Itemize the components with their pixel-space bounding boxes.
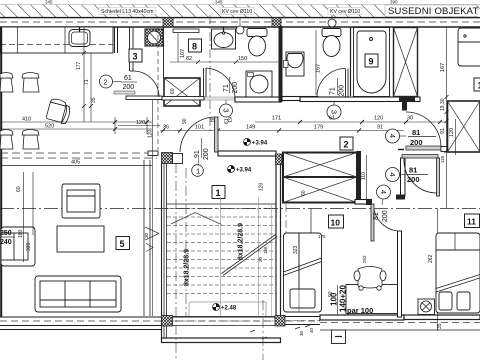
svg-text:335: 335 xyxy=(26,242,32,251)
room11 inner wall lines xyxy=(310,209,312,234)
svg-text:1: 1 xyxy=(196,167,200,176)
svg-text:2: 2 xyxy=(104,80,108,87)
KV pipe symbol 1 xyxy=(236,17,244,34)
stair landing outline xyxy=(189,302,266,316)
svg-text:90: 90 xyxy=(182,118,188,124)
bed room11 xyxy=(436,233,480,313)
kitchen sink xyxy=(69,27,90,47)
svg-text:410: 410 xyxy=(22,117,31,123)
room label 9 xyxy=(365,54,378,67)
kitchen vertical dim 177/71/35 xyxy=(82,27,93,122)
bath9 bottom wall xyxy=(300,97,420,102)
svg-text:+2.48: +2.48 xyxy=(221,306,237,312)
svg-text:+3.94: +3.94 xyxy=(236,168,252,174)
250/240 label xyxy=(0,230,14,246)
box with minus symbol xyxy=(332,330,346,344)
door 2 label xyxy=(100,75,138,91)
svg-text:110: 110 xyxy=(361,172,367,180)
vertical dim line right 167/19,30 xyxy=(438,27,449,331)
door sill room3 xyxy=(114,91,135,94)
wall pier hatched top 2 xyxy=(272,18,281,28)
svg-text:149: 149 xyxy=(246,125,255,131)
dim 167 vertical bath2 xyxy=(315,30,317,95)
door 4 room10 xyxy=(371,185,400,241)
svg-text:345: 345 xyxy=(215,0,223,5)
svg-text:91: 91 xyxy=(194,150,201,158)
shaft centerline vertical xyxy=(209,15,211,131)
svg-text:101: 101 xyxy=(195,125,204,131)
svg-text:30: 30 xyxy=(299,330,304,336)
dim line bathroom8 82/150 xyxy=(170,60,281,64)
svg-text:KV cev Ø110: KV cev Ø110 xyxy=(330,9,360,15)
svg-text:81: 81 xyxy=(412,128,420,137)
WC bottom wall xyxy=(126,96,162,100)
svg-text:KV cev Ø110: KV cev Ø110 xyxy=(222,9,252,15)
svg-text:4: 4 xyxy=(379,190,388,194)
vertical centerlines below stair xyxy=(175,163,177,360)
svg-text:par 100: par 100 xyxy=(347,306,373,315)
svg-text:120: 120 xyxy=(136,120,145,126)
room label 3 xyxy=(129,49,142,62)
room10 bottom wall xyxy=(285,317,320,325)
room label 8 xyxy=(189,39,202,52)
sofa bottom xyxy=(35,276,121,312)
door label 71/200 vertical xyxy=(223,77,239,94)
circle 3 tag bath8 door xyxy=(220,100,233,123)
chimney block xyxy=(145,29,163,46)
living glass wall lines xyxy=(144,99,153,316)
svg-text:90: 90 xyxy=(328,291,334,297)
+2.48 marker stair xyxy=(213,304,237,312)
svg-text:3: 3 xyxy=(133,52,138,62)
circle 1 tag entry xyxy=(192,158,204,176)
svg-text:35: 35 xyxy=(91,97,97,103)
terrace edge bottom left xyxy=(0,317,320,330)
svg-text:1: 1 xyxy=(216,188,221,198)
svg-text:3: 3 xyxy=(330,110,339,114)
wall between bath2 and bath9 xyxy=(350,27,352,96)
svg-text:167: 167 xyxy=(440,63,446,72)
svg-text:61: 61 xyxy=(124,75,132,82)
svg-text:9: 9 xyxy=(369,57,374,67)
toilet bathroom8 xyxy=(247,29,267,57)
svg-text:8x18.2/28.9: 8x18.2/28.9 xyxy=(238,223,245,260)
svg-text:81: 81 xyxy=(373,212,380,220)
svg-text:200: 200 xyxy=(203,148,210,160)
room label 12 (cut) xyxy=(474,78,480,91)
bathtub room9 xyxy=(354,28,390,97)
bar stool 1 xyxy=(0,73,13,93)
stair break peak xyxy=(171,213,222,225)
wall pier below bath9 xyxy=(399,96,415,102)
stair left wall xyxy=(162,163,167,340)
svg-text:71: 71 xyxy=(223,84,230,92)
washing machine bathroom8 xyxy=(246,71,272,97)
svg-text:10: 10 xyxy=(331,218,341,228)
svg-text:8: 8 xyxy=(192,42,197,52)
room label 10 xyxy=(329,215,344,228)
pier hatched at wardrobe left xyxy=(276,154,283,165)
dining chair rotated xyxy=(46,98,73,125)
washbasin bathroom8 xyxy=(212,27,236,49)
left vertical dim 60/180/335 xyxy=(24,172,34,262)
dashed zone boundary lines left xyxy=(0,153,157,166)
svg-text:390: 390 xyxy=(390,0,398,5)
bar stool 4 xyxy=(22,130,39,150)
room label 1 xyxy=(212,186,225,199)
bath2 bottom wall xyxy=(282,97,318,101)
stair line of travel xyxy=(185,168,187,316)
svg-text:200: 200 xyxy=(232,82,239,94)
svg-text:SUSEDNI OBJEKAT: SUSEDNI OBJEKAT xyxy=(388,6,478,17)
WC left wall xyxy=(130,27,134,97)
svg-text:30: 30 xyxy=(407,116,413,122)
stair handrail diagonal xyxy=(222,235,278,276)
svg-text:175: 175 xyxy=(318,234,326,239)
wall vertical between bath8 and bath2 xyxy=(279,26,283,102)
door sill bath8 xyxy=(205,97,235,100)
wardrobe X room12 xyxy=(448,101,480,152)
svg-text:107: 107 xyxy=(180,49,186,58)
svg-text:61: 61 xyxy=(329,116,335,122)
svg-text:71: 71 xyxy=(330,87,337,95)
svg-text:3: 3 xyxy=(222,108,231,112)
washbasin bath2 xyxy=(284,52,305,76)
svg-text:520: 520 xyxy=(45,124,54,130)
svg-text:81: 81 xyxy=(409,166,417,175)
svg-text:5: 5 xyxy=(120,239,125,249)
wall pier hatched top 1 xyxy=(163,18,173,28)
svg-text:166: 166 xyxy=(263,246,268,254)
pier hollow at stair top xyxy=(173,154,183,164)
centerline horizontal main xyxy=(0,208,480,210)
svg-text:262: 262 xyxy=(428,254,434,263)
stair vertical guide lines xyxy=(220,197,222,316)
kitchen counter xyxy=(0,27,118,53)
room label 2 xyxy=(340,137,353,150)
top exterior wall xyxy=(0,18,480,27)
svg-text:71: 71 xyxy=(84,79,90,85)
shaft X-box xyxy=(164,78,200,106)
bed11 inner line xyxy=(454,233,456,250)
svg-text:35: 35 xyxy=(437,323,443,329)
door sill bath2 xyxy=(318,97,346,100)
+3.94 marker room1 xyxy=(228,166,252,174)
centerline above bed10 xyxy=(285,204,287,233)
bed room10 xyxy=(284,233,322,312)
door 2 arc (61/200) xyxy=(130,71,159,97)
room label 11 xyxy=(465,214,480,228)
corridor dim line lower xyxy=(160,129,404,133)
window chevron left xyxy=(145,227,159,252)
bar stool 2 xyxy=(22,73,39,93)
door 4 room11 xyxy=(386,155,440,197)
svg-text:200: 200 xyxy=(123,84,135,91)
room10 top wall xyxy=(355,200,372,205)
svg-text:180: 180 xyxy=(18,229,24,238)
svg-text:60: 60 xyxy=(16,186,22,192)
wall corridor bottom right of entry door xyxy=(218,151,276,156)
svg-text:323: 323 xyxy=(293,245,299,254)
svg-text:4: 4 xyxy=(388,172,397,176)
svg-text:110: 110 xyxy=(440,155,445,163)
bath2 door (71/200) xyxy=(317,69,348,98)
pier hatched at stair top xyxy=(162,153,173,164)
svg-text:30: 30 xyxy=(144,232,149,238)
washing machine symbol room11 xyxy=(418,299,435,315)
stair treads dashed xyxy=(167,209,276,294)
circle 3 door tag xyxy=(327,97,341,119)
bed dim 323 xyxy=(298,233,300,312)
svg-text:82: 82 xyxy=(186,56,192,62)
svg-text:179: 179 xyxy=(314,125,323,131)
loveseat left xyxy=(1,227,35,266)
desk room10 xyxy=(346,285,399,314)
bed room12 xyxy=(458,28,480,66)
svg-text:253: 253 xyxy=(362,255,367,263)
svg-text:177: 177 xyxy=(76,61,82,70)
coffee table xyxy=(57,226,104,252)
stair south window band xyxy=(173,317,276,326)
left edge wall line xyxy=(0,27,2,317)
svg-text:2: 2 xyxy=(344,140,349,150)
svg-text:150: 150 xyxy=(238,56,247,62)
stair top edge xyxy=(167,203,276,205)
bathroom8 bottom wall right xyxy=(235,97,281,102)
svg-text:91: 91 xyxy=(377,125,383,131)
bathroom8 bottom wall left xyxy=(162,97,204,101)
wall between room12 and room11 xyxy=(398,149,404,151)
svg-text:61: 61 xyxy=(224,118,230,124)
room label 5 xyxy=(116,237,130,250)
dimension line 410/120 xyxy=(0,117,152,134)
dim ticks xyxy=(113,120,149,131)
svg-text:60: 60 xyxy=(170,88,176,94)
entry door label 91/200 xyxy=(194,138,210,160)
corridor dim line upper xyxy=(255,120,455,124)
svg-text:345: 345 xyxy=(45,0,53,5)
svg-text:200: 200 xyxy=(339,85,346,97)
svg-text:40: 40 xyxy=(309,327,314,333)
bar stool 3 xyxy=(0,130,13,150)
bathroom8 left dashed shaft line xyxy=(157,27,159,150)
closet X tall right of bath9 xyxy=(394,28,418,97)
svg-text:171: 171 xyxy=(272,116,281,122)
stair south outer wall xyxy=(162,338,281,343)
svg-text:120: 120 xyxy=(374,116,383,122)
svg-text:200: 200 xyxy=(382,210,389,222)
vertical dim 107 xyxy=(177,33,179,62)
svg-text:19,30: 19,30 xyxy=(440,98,446,111)
chair room10 xyxy=(354,267,386,291)
armchair top xyxy=(62,184,100,218)
svg-text:+3.94: +3.94 xyxy=(252,141,268,147)
shelf bathroom8 xyxy=(173,29,199,33)
svg-text:405: 405 xyxy=(71,160,80,166)
toilet bath2 xyxy=(322,29,341,57)
svg-text:11: 11 xyxy=(467,217,476,227)
svg-text:8x18.2/28.9: 8x18.2/28.9 xyxy=(184,249,191,286)
bathroom8 door (71/200) xyxy=(204,68,236,99)
svg-text:120: 120 xyxy=(259,182,265,191)
svg-text:20: 20 xyxy=(258,256,263,262)
wall corridor bottom left stub xyxy=(148,151,158,156)
svg-text:Schiedel L13 40x40cm: Schiedel L13 40x40cm xyxy=(101,9,154,15)
svg-text:200: 200 xyxy=(410,138,423,147)
svg-text:120: 120 xyxy=(449,128,455,137)
neighbouring building hatched band xyxy=(0,0,480,18)
svg-text:240: 240 xyxy=(0,239,12,246)
+3.94 marker corridor xyxy=(244,139,268,147)
KV pipe symbol 2 xyxy=(328,15,336,27)
stair bottom piers xyxy=(162,316,173,327)
entry door leaf xyxy=(180,117,218,152)
svg-text:91: 91 xyxy=(440,128,446,134)
svg-text:250: 250 xyxy=(0,230,12,237)
svg-text:167: 167 xyxy=(316,64,322,73)
svg-text:4: 4 xyxy=(388,134,397,138)
door label 71/200 vertical bath2 xyxy=(330,78,346,97)
door 4 room12 xyxy=(386,112,449,152)
svg-text:60: 60 xyxy=(301,190,307,196)
svg-text:36: 36 xyxy=(163,125,169,131)
stair right wall xyxy=(276,164,281,316)
